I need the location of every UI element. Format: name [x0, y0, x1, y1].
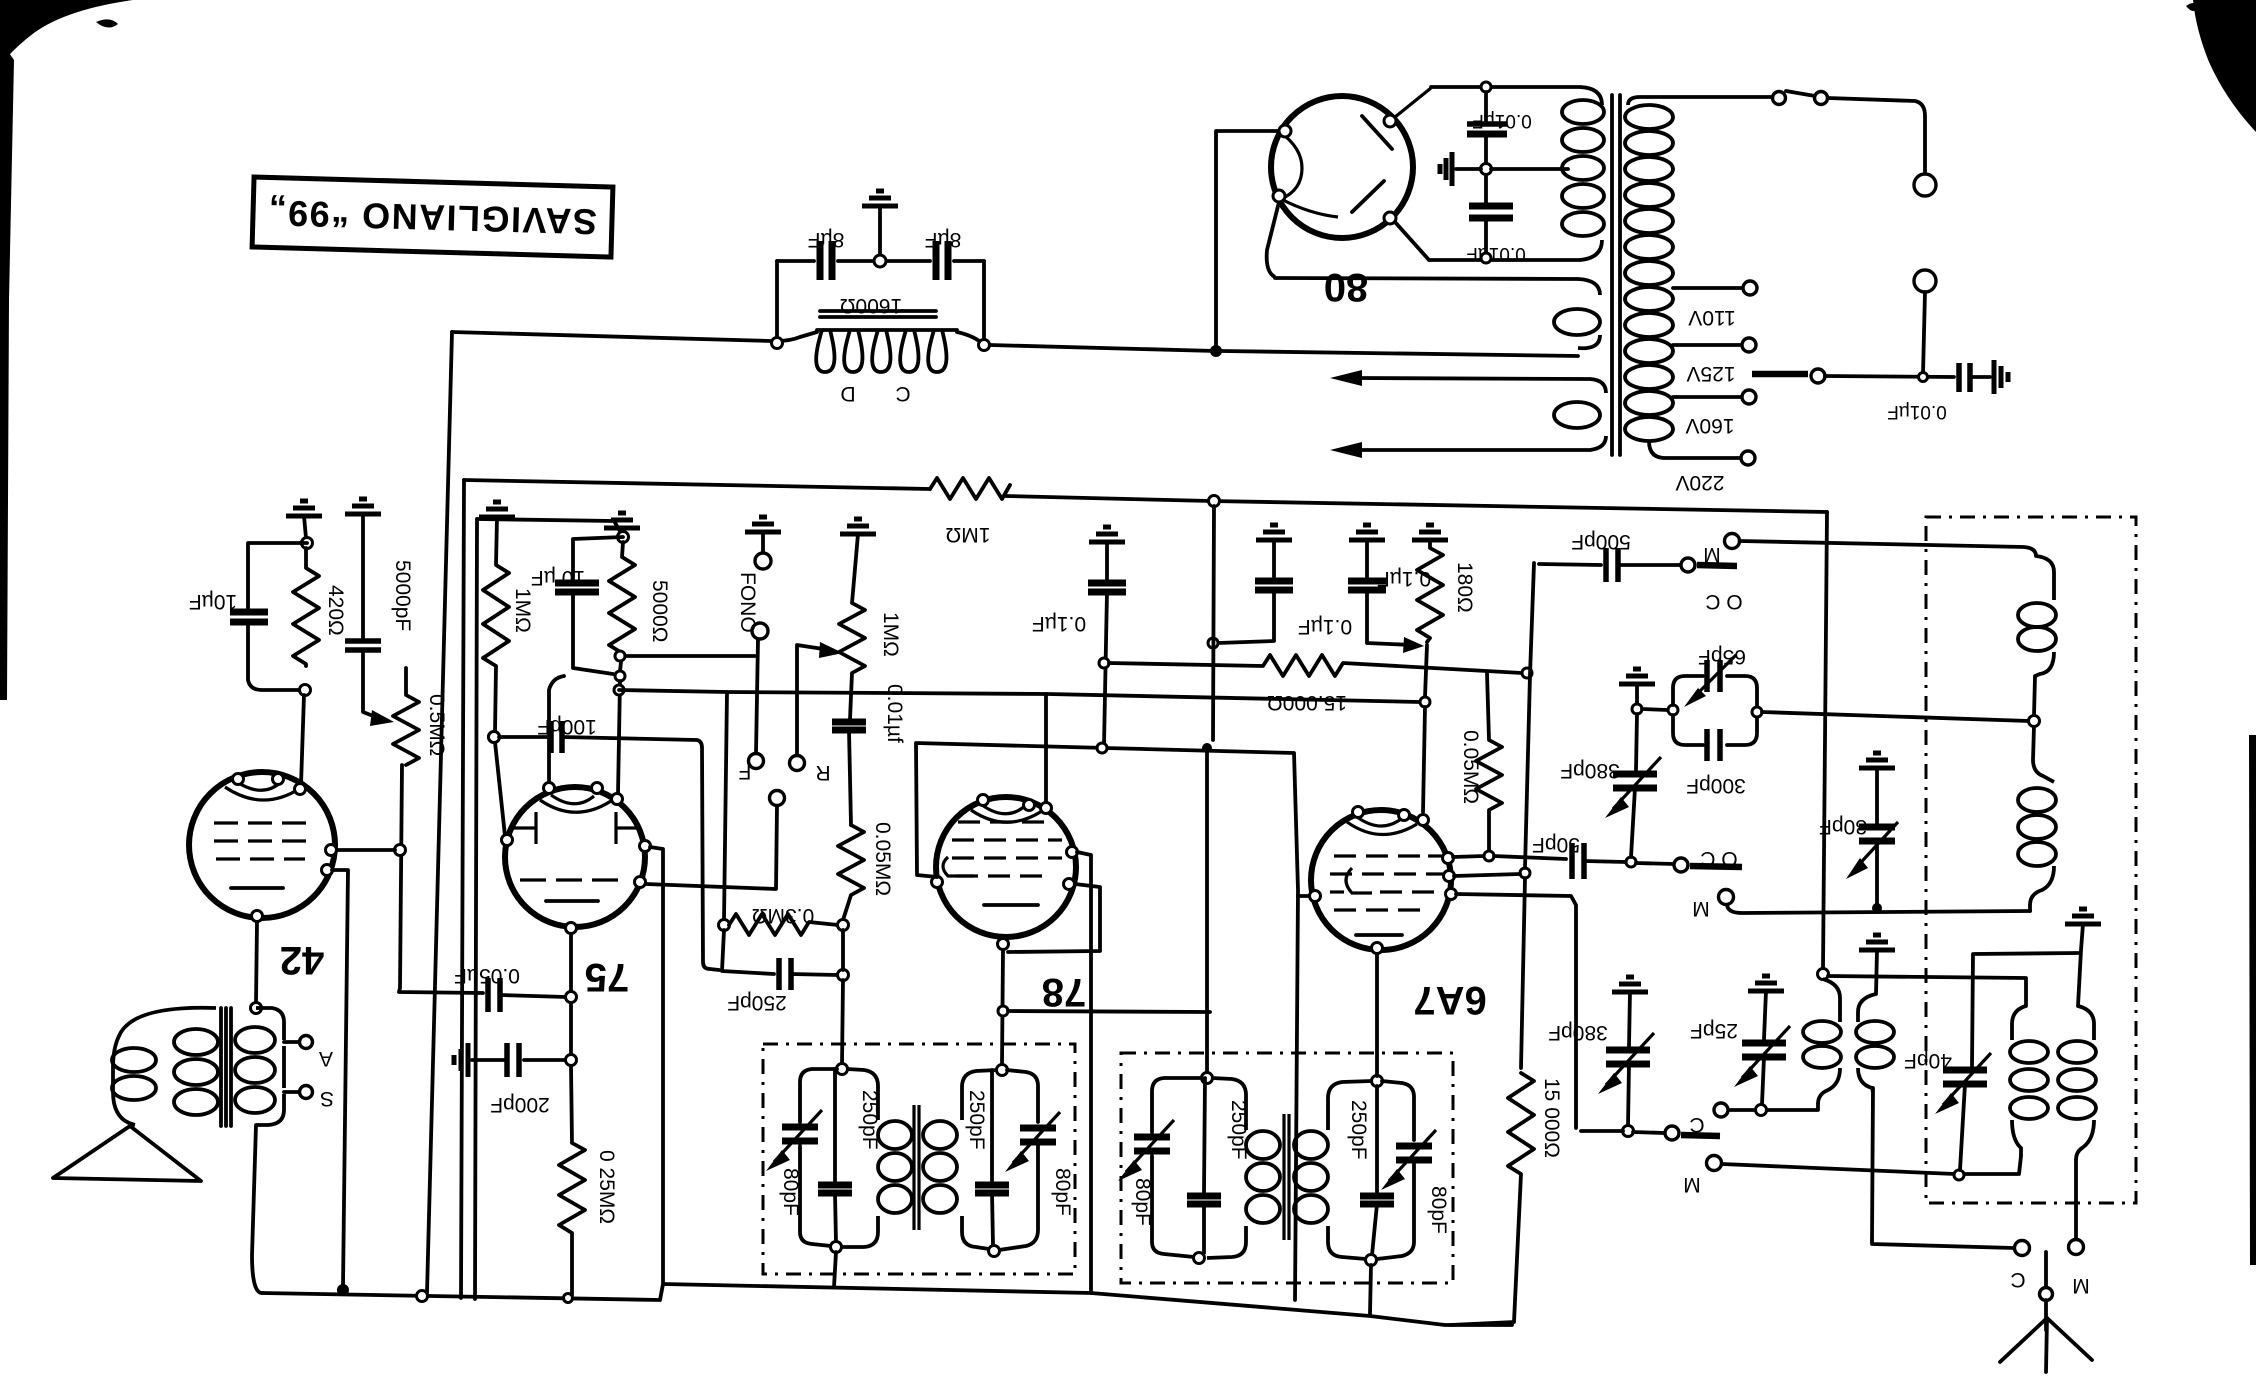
svg-text:F: F: [739, 760, 752, 783]
svg-text:10µF: 10µF: [189, 590, 237, 613]
contact C (50pF row): [1674, 858, 1688, 872]
resistor 5000 ohm: [609, 542, 635, 671]
potentiometer 1M ohm (fono level): [840, 519, 876, 534]
wire junction up to tube 80 cathode pin: [1216, 131, 1279, 351]
svg-text:5000pF: 5000pF: [391, 560, 414, 631]
svg-text:R: R: [815, 761, 830, 784]
svg-text:C: C: [895, 382, 910, 405]
rectifier tube 80: [1271, 96, 1413, 238]
svg-text:C: C: [2010, 1268, 2025, 1291]
power transformer core: [1610, 95, 1614, 455]
wire cap bus: [777, 259, 814, 263]
ground (75 cathode group): [604, 513, 640, 528]
IF1 secondary winding: [962, 1070, 997, 1120]
scan artifact right edge: [2249, 735, 2256, 1265]
svg-text:6A7: 6A7: [1413, 978, 1486, 1022]
capacitor 250pF (IF1 secondary): [990, 1070, 994, 1181]
IF1 secondary top node: [997, 1065, 1008, 1076]
svg-text:250pF: 250pF: [1227, 1100, 1250, 1160]
wire screen feed vertical: [1213, 506, 1214, 740]
wire plate node to IF2 feed: [1008, 1011, 1210, 1012]
IF2 trimmer branch (left): [1152, 1078, 1202, 1132]
capacitor 5000pF: [345, 638, 381, 644]
inner rail: [477, 519, 620, 531]
trimmer 80pF: [1020, 1125, 1056, 1132]
contact row C / W (bottom): [1872, 1240, 2014, 1248]
wire cathode node to tube pin: [301, 695, 304, 785]
ground (tone cap): [345, 499, 381, 514]
svg-text:5000Ω: 5000Ω: [648, 580, 671, 642]
svg-text:M: M: [2072, 1274, 2090, 1297]
svg-text:M: M: [1683, 1173, 1701, 1196]
resistor 180 ohm (6A7 cathode): [1417, 540, 1443, 642]
wire osc padder feed: [1972, 953, 2078, 1066]
node + ground stub: [1481, 164, 1492, 175]
svg-text:100pF: 100pF: [537, 715, 597, 738]
wire 6A7 osc anode row: [1453, 856, 1484, 857]
svg-text:0.1µF: 0.1µF: [1377, 567, 1431, 590]
resistor 0.3M ohm: [719, 920, 730, 931]
svg-text:O C: O C: [1700, 847, 1737, 870]
resistor 0.25M ohm: [559, 1066, 585, 1295]
tap 160V: [1673, 395, 1742, 399]
IF2 primary top node: [1202, 1073, 1213, 1084]
IF2 secondary bottom node: [1366, 1255, 1377, 1266]
wire to 0.3M column: [619, 690, 1420, 702]
trimmer 80pF: [1134, 1134, 1170, 1141]
left border vertical (inner): [475, 519, 477, 1299]
IF2 core: [1282, 1114, 1285, 1240]
IF1 primary top node: [837, 1064, 848, 1075]
IF1 trimmer branch (right): [1007, 1070, 1038, 1122]
node choke left: [772, 338, 783, 349]
capacitor 0.01uF (line filter): [1956, 363, 1962, 392]
capacitor 0.01uF (top plate): [1481, 82, 1491, 92]
svg-text:80pF: 80pF: [1427, 1186, 1450, 1234]
resistor 0.05M ohm: [838, 825, 864, 920]
node cap bus center: [874, 255, 886, 267]
svg-text:S: S: [320, 1087, 334, 1110]
speaker cone: [53, 1126, 201, 1181]
capacitor 0.05uF (42 grid coupling): [485, 978, 491, 1012]
resistor 1M ohm (diode load): [483, 517, 509, 733]
arrow heater top: [1330, 370, 1362, 386]
svg-text:80pF: 80pF: [779, 1168, 802, 1216]
contact C (osc grid row): [1623, 1126, 1634, 1137]
svg-text:75: 75: [585, 955, 630, 999]
capacitor 250pF (IF1 primary): [833, 1069, 837, 1181]
wire 6A7 plate to IF2 secondary: [1375, 954, 1379, 1076]
capacitor 10uF (75 cathode): [573, 537, 623, 579]
ground (0.1uF cathode 6A7): [1349, 525, 1385, 540]
trimmer 80pF: [782, 1124, 818, 1131]
IF2 primary bottom node: [1194, 1253, 1205, 1264]
svg-text:25pF: 25pF: [1690, 1019, 1738, 1042]
IF2 secondary top node: [1372, 1076, 1383, 1087]
contact C (osc tuned row): [1756, 1105, 1767, 1116]
terminal S: [284, 1090, 299, 1094]
ground (filter caps common): [862, 191, 898, 206]
switch R contact: [790, 756, 805, 771]
svg-text:220V: 220V: [1675, 471, 1724, 494]
ground (0.1uF det filter): [1089, 527, 1125, 542]
wire 75 right pin to ground bus: [650, 847, 663, 1282]
svg-text:125V: 125V: [1686, 362, 1735, 385]
svg-text:380pF: 380pF: [1548, 1021, 1608, 1044]
svg-text:15 000Ω: 15 000Ω: [1540, 1078, 1563, 1158]
svg-text:1600Ω: 1600Ω: [840, 294, 902, 317]
svg-text:380pF: 380pF: [1560, 759, 1620, 782]
wire W row to 40pF and osc coil B: [1722, 1156, 2021, 1174]
title box SAVIGLIANO 99: [252, 177, 613, 257]
svg-text:8µF: 8µF: [925, 228, 962, 251]
svg-text:10 µF: 10 µF: [531, 566, 585, 589]
svg-text:30pF: 30pF: [1819, 815, 1867, 838]
scan artifact top-left corner: [0, 0, 133, 66]
svg-text:1MΩ: 1MΩ: [946, 523, 991, 546]
wire 78 plate down to IF1: [1002, 950, 1003, 1064]
long B+ line from rail to oscillator: [1823, 512, 1827, 968]
terminal W (ant row): [1719, 890, 1734, 905]
capacitor 250pF (detector bypass): [722, 930, 774, 974]
bottom ground rail: [262, 1284, 663, 1300]
wire 78 suppressor to ground bus: [1077, 852, 1091, 1293]
wire pot bottom to grid node and coupling: [399, 765, 483, 993]
wire 100pF to IF2 secondary top (detector line): [562, 737, 719, 970]
svg-text:15.000Ω: 15.000Ω: [1267, 691, 1347, 714]
IF1 core: [912, 1105, 915, 1230]
capacitor 50pF: [1569, 843, 1575, 879]
wire choke right to rectifier junction: [990, 345, 1216, 351]
ground bus line B: [663, 1284, 1512, 1325]
svg-text:50pF: 50pF: [1532, 833, 1580, 856]
tube 42: [189, 772, 335, 918]
resistor 0.05M ohm (osc grid leak): [1476, 673, 1502, 850]
mains plug terminal 2: [1914, 270, 1936, 292]
capacitor 8uF (left filter): [817, 241, 824, 280]
svg-text:0.05MΩ: 0.05MΩ: [871, 822, 894, 896]
IF1 secondary bottom node: [989, 1246, 1000, 1257]
svg-text:0.01µf: 0.01µf: [883, 684, 906, 743]
svg-text:180Ω: 180Ω: [1453, 562, 1476, 613]
wire 42 grid: [336, 848, 395, 852]
rect filament winding: [1267, 202, 1279, 277]
contact C (500pF row): [1681, 558, 1695, 572]
svg-text:65pF: 65pF: [1698, 645, 1746, 668]
wire stub to 6A7 grid pin: [1298, 894, 1310, 898]
wire to antenna coil junction: [1762, 712, 2029, 721]
wire transformer to bottom rail: [252, 1125, 262, 1293]
capacitor 0.01uF (bottom plate): [1469, 203, 1513, 210]
svg-text:110V: 110V: [1688, 306, 1736, 329]
svg-text:A: A: [319, 1047, 333, 1070]
wire HV center tap: [1491, 167, 1568, 171]
svg-text:M: M: [1703, 543, 1721, 566]
trimmer 65pF + capacitor 300pF parallel: [1642, 709, 1668, 710]
svg-text:80pF: 80pF: [1131, 1178, 1154, 1226]
IF2 primary winding: [1212, 1078, 1246, 1130]
capacitor 0.1uF (det filter): [1088, 580, 1126, 587]
switch F contact: [749, 754, 764, 769]
svg-text:0.01µF: 0.01µF: [1472, 110, 1532, 131]
svg-text:8µF: 8µF: [808, 228, 845, 251]
trimmer 80pF: [1396, 1143, 1432, 1150]
tube 80 pins: [1279, 125, 1291, 137]
plate top: [1362, 116, 1392, 149]
svg-text:420Ω: 420Ω: [324, 585, 347, 636]
oscillator coil B (reaction winding): [2012, 1006, 2026, 1040]
ground (osc top left): [1859, 935, 1895, 950]
trimmer 380pF (oscillator): [1612, 977, 1648, 992]
capacitor 500pF: [1603, 548, 1609, 582]
svg-text:0.1µF: 0.1µF: [1032, 612, 1086, 635]
wire 78 grid AVC line: [916, 743, 1298, 1300]
wire cathode down to 6A7: [1425, 645, 1427, 697]
left border vertical (outer): [461, 480, 464, 1298]
junction B+: [1210, 345, 1222, 357]
svg-text:80: 80: [1324, 265, 1369, 309]
svg-text:0.5MΩ: 0.5MΩ: [425, 694, 448, 756]
IF1 primary bottom node: [831, 1242, 842, 1253]
resistor 15000 ohm (vertical, osc feed): [1450, 1073, 1534, 1325]
mains switch: [1773, 92, 1786, 105]
tap 220V: [1741, 451, 1755, 465]
wire B+ screen column: [1525, 563, 1534, 868]
HV secondary winding: [1580, 87, 1602, 105]
resistor 15.000 ohm (horizontal): [1109, 655, 1522, 676]
primary winding: [1628, 97, 1772, 105]
trimmer 40pF (padder): [1943, 1067, 1987, 1074]
ground (180 ohm): [1412, 525, 1448, 540]
wire to osc coil B left top: [1828, 976, 2026, 1006]
wire long vertical to bottom rail: [427, 332, 452, 1293]
svg-text:250pF: 250pF: [965, 1090, 988, 1150]
choke 1600 ohm (speaker field): [777, 332, 817, 341]
oscillator coil B (plate winding): [2078, 1006, 2094, 1040]
wire 75 plate to coupling node: [569, 934, 573, 991]
svg-text:0.01µF: 0.01µF: [1466, 243, 1526, 264]
ground (0.1uF screen): [1256, 525, 1292, 540]
ground (30pF): [1859, 753, 1895, 768]
capacitor 250pF (IF2 secondary): [1375, 1086, 1379, 1192]
svg-text:40pF: 40pF: [1904, 1049, 1952, 1072]
output transformer primary: [256, 1008, 284, 1040]
output transformer core: [219, 1008, 223, 1126]
antenna coil primary (M): [2036, 556, 2054, 600]
IF1 primary winding: [847, 1069, 878, 1120]
outer top rail with 1M ohm resistor: [464, 480, 930, 489]
capacitor 0.1uF (screen bypass): [1255, 578, 1293, 585]
wire plate top to HV top: [1395, 88, 1431, 117]
svg-text:0.01µF: 0.01µF: [1887, 401, 1947, 422]
svg-text:78: 78: [1042, 970, 1087, 1014]
capacitor 0.1uF (6A7 cathode bypass): [1348, 578, 1386, 585]
wire ground stem to cap bus: [878, 206, 882, 257]
capacitor 100pF: [489, 732, 500, 743]
wire 78 screen pin down: [1044, 694, 1048, 802]
wire osc coil B to W terminal: [2074, 1160, 2078, 1239]
IF2 trimmer branch (right): [1382, 1081, 1414, 1140]
capacitor 8uF (right filter): [933, 241, 940, 280]
wire 78 cathode loop: [1008, 884, 1100, 952]
terminal A: [284, 1040, 299, 1044]
oscillator coil A (feedback winding): [1823, 979, 1840, 1022]
switch pole: [770, 791, 785, 806]
svg-text:0.1µF: 0.1µF: [1298, 615, 1352, 638]
trimmer 25pF: [1748, 976, 1784, 991]
resistor 420 ohm: [293, 548, 319, 666]
svg-text:1MΩ: 1MΩ: [879, 612, 902, 657]
svg-text:1MΩ: 1MΩ: [511, 588, 534, 633]
ground (42 cathode): [286, 501, 322, 516]
capacitor 250pF (IF2 primary): [1204, 1078, 1205, 1192]
ground (osc top right): [2065, 909, 2101, 924]
aerial: [2044, 1252, 2048, 1288]
arrow heater bottom: [1330, 442, 1362, 458]
wire W to antenna coil bottom: [1727, 905, 2030, 913]
ground (diode load): [479, 502, 515, 517]
node antenna coil junction: [2029, 716, 2040, 727]
svg-text:O C: O C: [1705, 590, 1742, 613]
plate bottom: [1352, 181, 1384, 212]
terminal M: [1725, 534, 1740, 549]
trimmer 380pF (antenna): [1636, 714, 1637, 770]
tap selector bar: [1752, 371, 1808, 378]
capacitor 0.01uF (fono series): [832, 719, 866, 726]
wire 42 plate down: [332, 870, 348, 1286]
tap 125V: [1673, 343, 1742, 347]
capacitor 200pF + ground: [566, 1055, 577, 1066]
svg-text:D: D: [840, 382, 855, 405]
svg-text:160V: 160V: [1685, 414, 1734, 437]
wire 42 screen down to output transformer: [256, 922, 257, 1003]
trimmer 30pF: [1859, 824, 1895, 831]
scan artifact top-right corner: [2193, 0, 2256, 132]
heater winding with arrows: [1358, 378, 1590, 379]
wire choke right leg: [982, 261, 986, 345]
IF2 secondary winding: [1328, 1081, 1372, 1130]
antenna coil secondary: [2033, 726, 2054, 782]
wire 75 diode pin up: [549, 676, 564, 782]
svg-text:42: 42: [280, 938, 325, 982]
svg-text:0 25MΩ: 0 25MΩ: [595, 1150, 618, 1224]
svg-text:300pF: 300pF: [1686, 774, 1746, 797]
terminal W (osc row): [1707, 1156, 1722, 1171]
svg-text:80pF: 80pF: [1051, 1168, 1074, 1216]
svg-text:0.05MΩ: 0.05MΩ: [1459, 730, 1482, 804]
scan artifact left edge: [0, 40, 14, 700]
output transformer secondary (speaker coil): [113, 1008, 216, 1125]
tube 75: [505, 787, 645, 927]
mains plug terminal 1: [1914, 174, 1936, 196]
wire choke to B- vertical: [452, 332, 771, 341]
node choke right: [979, 340, 990, 351]
FONO terminals: [745, 517, 781, 532]
potentiometer 0.5M ohm (volume): [393, 668, 419, 765]
svg-text:0.3MΩ: 0.3MΩ: [752, 904, 814, 927]
svg-text:M: M: [1692, 897, 1710, 920]
wire M to antenna coil top: [1740, 541, 2036, 556]
oscillator coil A (tuned winding): [1858, 994, 1876, 1022]
svg-text:200pF: 200pF: [490, 1093, 550, 1116]
wire 6A7 signal grid row to 50pF: [1454, 874, 1520, 876]
wire AVC column down to IF1: [841, 930, 845, 970]
svg-text:250pF: 250pF: [727, 991, 787, 1014]
capacitor 10uF: [248, 543, 307, 608]
IF1 trimmer branch (left): [800, 1069, 837, 1122]
wire to F contact: [620, 654, 755, 658]
svg-text:500pF: 500pF: [1571, 530, 1631, 553]
svg-text:250pF: 250pF: [1347, 1100, 1370, 1160]
ground (65/300pF): [1619, 669, 1655, 684]
wire choke left leg: [775, 261, 779, 341]
wire plate bottom to HV bottom: [1395, 222, 1429, 260]
svg-text:FONO: FONO: [736, 572, 759, 633]
choke core lines: [820, 309, 936, 313]
tap 110V: [1673, 286, 1743, 290]
ground (line filter): [1994, 360, 2008, 394]
wire 6A7 osc grid row: [1456, 894, 1576, 1128]
svg-text:250pF: 250pF: [858, 1090, 881, 1150]
